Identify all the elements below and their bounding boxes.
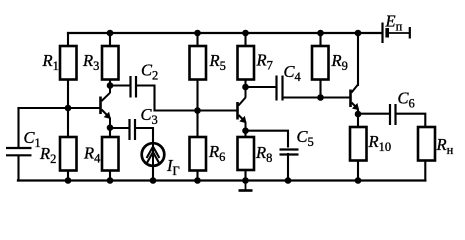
node rail C5: [285, 177, 292, 184]
wire R3 bottom: [109, 80, 111, 86]
svg-text:IГ: IГ: [166, 156, 180, 178]
battery Ep: [383, 23, 410, 44]
wire R8 top: [244, 131, 246, 137]
node base2: [194, 107, 201, 114]
wire bottom rail: [18, 179, 425, 181]
svg-text:Eп: Eп: [385, 12, 403, 34]
svg-text:R5: R5: [209, 51, 226, 73]
resistor R9: [312, 46, 329, 80]
wire R4 bottom: [109, 171, 111, 181]
node rail R10: [355, 177, 362, 184]
wire collector2 node to C4: [246, 86, 276, 88]
wire R5 top: [196, 33, 198, 46]
svg-text:C2: C2: [141, 61, 158, 83]
wire R1 top: [67, 33, 69, 46]
wire node B1 to C2: [110, 84, 130, 86]
capacitor C6: [390, 104, 396, 125]
wire R3 top: [109, 33, 111, 46]
svg-text:C1: C1: [24, 128, 41, 150]
wire R7 top: [244, 33, 246, 46]
node emitter2: [242, 127, 249, 134]
resistor R6: [190, 137, 207, 171]
svg-text:R3: R3: [82, 51, 99, 73]
wire R9 bottom: [319, 80, 321, 98]
transistor Q1: [101, 86, 111, 128]
svg-text:R2: R2: [39, 144, 56, 166]
node rail R3: [107, 30, 114, 37]
wire C1 left vertical bottom: [17, 156, 19, 181]
wire emitter3 node: [357, 111, 359, 115]
resistor Rn load: [418, 127, 435, 161]
wire R4 top: [109, 128, 111, 137]
node rail R7: [242, 30, 249, 37]
resistor R1: [60, 46, 77, 80]
svg-text:R9: R9: [331, 51, 348, 73]
wire emitter3 node to C6: [358, 113, 389, 115]
wire C4 right to base3: [284, 96, 351, 98]
capacitor C3: [130, 119, 136, 140]
wire input horizontal: [19, 107, 101, 109]
svg-text:C6: C6: [398, 89, 415, 111]
resistor R10: [350, 127, 367, 161]
node rail R9: [317, 30, 324, 37]
resistor R3: [102, 46, 119, 80]
ground: [239, 181, 253, 191]
node emitter1: [107, 124, 114, 131]
node base3: [317, 94, 324, 101]
node rail Ig: [150, 177, 157, 184]
wire C5 bottom: [287, 154, 289, 181]
transistor Q2: [238, 87, 246, 131]
resistor R4: [102, 137, 119, 171]
capacitor C5: [280, 150, 299, 155]
wire C6 right to Rn: [397, 114, 426, 127]
current source IG: [142, 143, 165, 166]
wire R1 bottom to node: [67, 80, 69, 138]
wire stage2 base horizontal: [155, 109, 237, 111]
transistor Q3: [351, 84, 359, 114]
wire C3 right to Ig: [136, 128, 153, 144]
resistor R5: [190, 46, 207, 80]
node rail R6: [194, 177, 201, 184]
node rail R5: [194, 30, 201, 37]
node rail R4: [107, 177, 114, 184]
wire R8 bottom: [244, 170, 246, 181]
wire R9 top: [319, 33, 321, 46]
node collector1: [107, 82, 114, 89]
resistor R8: [238, 137, 255, 170]
wire R2 bottom: [67, 171, 69, 181]
resistor R7: [238, 46, 255, 80]
wire top rail: [68, 32, 382, 34]
svg-text:R4: R4: [83, 144, 101, 166]
wire R10 bottom: [357, 161, 359, 181]
node rail Q3 collector: [355, 30, 362, 37]
node input base1: [65, 105, 72, 112]
svg-text:R6: R6: [208, 142, 225, 164]
wire R5 bottom to node: [196, 80, 198, 138]
svg-text:C5: C5: [297, 127, 314, 149]
wire emitter1 to C3: [110, 127, 129, 129]
wire Rn bottom: [424, 161, 426, 181]
svg-text:R10: R10: [368, 132, 392, 154]
node emitter3: [355, 111, 362, 118]
wire R6 bottom: [196, 171, 198, 181]
wire C2 right to drop: [137, 86, 155, 111]
capacitor C1: [6, 148, 32, 155]
svg-text:R8: R8: [255, 143, 272, 165]
svg-text:C4: C4: [284, 62, 302, 84]
wire R10 top: [357, 114, 359, 127]
node collector2: [242, 84, 249, 91]
capacitor C2: [131, 76, 137, 98]
wire collector3 to rail: [357, 33, 359, 85]
node rail ground: [242, 177, 249, 184]
capacitor C4: [277, 76, 283, 101]
svg-text:R1: R1: [42, 51, 59, 73]
wire C1 left vertical top: [17, 108, 19, 147]
wire emitter2 node to C5: [246, 131, 289, 147]
wire R7 bottom to collector node: [244, 80, 246, 88]
svg-text:R7: R7: [256, 51, 273, 73]
svg-text:Rн: Rн: [436, 135, 454, 157]
wire Ig bottom: [152, 166, 154, 181]
node rail R2: [65, 177, 72, 184]
resistor R2: [60, 137, 77, 171]
